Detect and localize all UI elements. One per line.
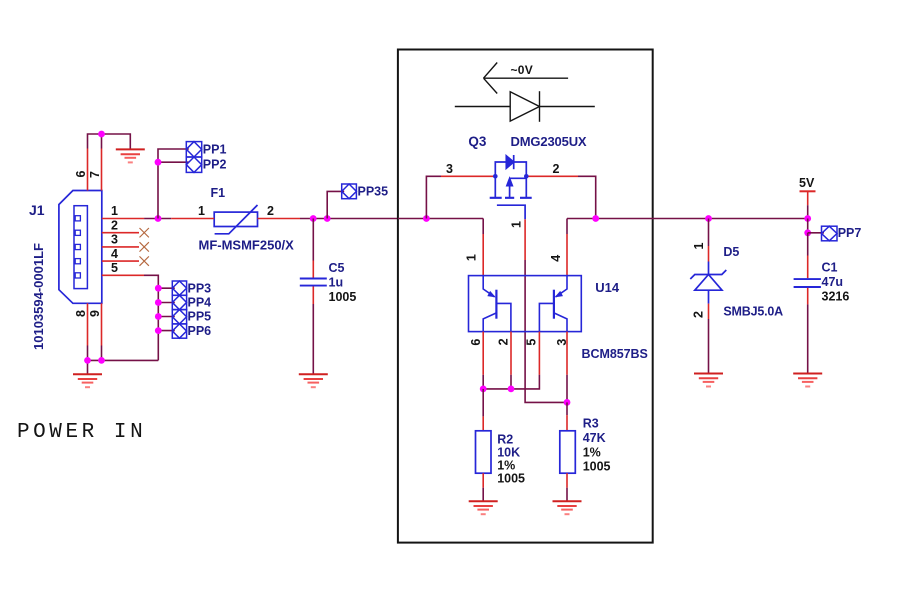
svg-text:2: 2	[267, 204, 274, 218]
svg-text:6: 6	[469, 339, 483, 346]
svg-text:D5: D5	[723, 245, 739, 259]
testpoint PP4	[172, 295, 186, 309]
D5 pin 2 lead	[708, 304, 710, 319]
wire PP35 riser	[327, 191, 344, 218]
svg-text:5: 5	[111, 261, 118, 275]
R2 bottom lead	[482, 473, 484, 488]
junction PP5	[155, 313, 162, 320]
svg-text:C1: C1	[822, 261, 838, 275]
wire pin7 top segment	[101, 134, 103, 149]
svg-text:PP1: PP1	[203, 143, 227, 157]
svg-text:1%: 1%	[497, 459, 515, 473]
wire PP1/PP2 riser	[158, 149, 189, 219]
R3 bottom lead	[566, 473, 568, 488]
wire pin2 to node	[510, 375, 512, 389]
wire C1 to ground	[807, 304, 809, 373]
svg-text:5V: 5V	[799, 176, 815, 190]
wire bottom bus to PP column	[88, 359, 159, 361]
svg-text:PP7: PP7	[838, 226, 862, 240]
ground (R3)	[553, 501, 582, 514]
svg-text:PP2: PP2	[203, 158, 227, 172]
svg-text:R3: R3	[583, 417, 599, 431]
wire pin9 bottom segment	[101, 346, 103, 361]
Q3 source node dot	[493, 174, 498, 179]
junction VBUS PP branch	[155, 215, 162, 222]
junction Q3 drain bus	[592, 215, 599, 222]
capacitor C5	[300, 279, 327, 286]
junction 5V	[804, 215, 811, 222]
junction pin8 node	[84, 357, 91, 364]
wire Q3 pin2 to right bus	[578, 176, 596, 218]
ground (J1 bottom)	[73, 374, 102, 387]
wire pin6 top segment	[88, 134, 102, 149]
svg-text:PP4: PP4	[188, 296, 212, 310]
svg-text:2: 2	[692, 311, 706, 318]
wire VBUS J1 to F1	[144, 218, 171, 220]
svg-text:1005: 1005	[497, 472, 525, 486]
no-connect X pin 2	[140, 228, 149, 237]
svg-text:Q3: Q3	[468, 134, 487, 149]
J1 pin 5 lead	[102, 274, 144, 276]
no-connect X pin 4	[140, 256, 149, 265]
svg-text:1: 1	[465, 254, 479, 261]
svg-text:5: 5	[524, 339, 538, 346]
R3 top lead	[566, 415, 568, 431]
U14 pin 5 lead	[538, 332, 540, 375]
J1 pin 7 lead	[101, 149, 103, 191]
wire R3 to ground	[566, 488, 568, 502]
J1 pin 1 lead	[102, 218, 144, 220]
junction PP35	[324, 215, 331, 222]
svg-text:10K: 10K	[497, 446, 520, 460]
junction PP3	[155, 285, 162, 292]
wire PP5 stub	[158, 316, 175, 318]
svg-text:9: 9	[88, 310, 102, 317]
junction base node left	[480, 386, 487, 393]
wire D5 top	[708, 219, 710, 247]
svg-text:3: 3	[555, 339, 569, 346]
wire pin8 bottom segment	[87, 346, 89, 361]
svg-text:J1: J1	[29, 202, 45, 218]
wire D5 to ground	[708, 319, 710, 374]
testpoint PP35	[342, 184, 357, 199]
Q3 pin 2 lead	[526, 175, 578, 177]
Q3 drain node dot	[524, 174, 529, 179]
testpoint PP5	[172, 310, 186, 324]
ground (D5)	[694, 374, 723, 387]
wire node to R2	[482, 389, 484, 417]
testpoint PP1	[186, 142, 201, 157]
J1 pin 9 lead	[101, 303, 103, 345]
dual transistor U14 (BCM857BS)	[469, 276, 582, 332]
5V power bar	[800, 190, 816, 192]
5V power lead	[807, 191, 809, 205]
svg-text:PP35: PP35	[358, 185, 389, 199]
junction top shield node	[98, 131, 105, 138]
svg-text:4: 4	[111, 247, 118, 261]
C1 top lead	[807, 256, 809, 279]
module box	[398, 50, 653, 543]
svg-text:2: 2	[553, 162, 560, 176]
svg-text:2: 2	[497, 338, 511, 345]
svg-text:47K: 47K	[583, 431, 606, 445]
svg-text:PP3: PP3	[188, 281, 212, 295]
svg-text:1: 1	[510, 221, 524, 228]
junction PP7	[804, 229, 811, 236]
svg-text:U14: U14	[595, 280, 620, 295]
transistor Q3 (P-MOSFET)	[490, 155, 532, 219]
svg-text:47u: 47u	[822, 275, 844, 289]
svg-text:PP6: PP6	[188, 324, 212, 338]
svg-text:1005: 1005	[583, 460, 611, 474]
svg-text:4: 4	[549, 255, 563, 262]
testpoint PP3	[172, 281, 186, 295]
U14 pin 3 lead	[566, 332, 568, 375]
testpoint PP7	[822, 226, 838, 241]
svg-text:~0V: ~0V	[511, 63, 534, 77]
junction PP6	[155, 327, 162, 334]
svg-text:1: 1	[111, 204, 118, 218]
J1 pin 8 lead	[87, 303, 89, 345]
ground (C5)	[299, 374, 328, 387]
svg-text:1: 1	[692, 242, 706, 249]
resistor R3	[560, 431, 576, 473]
svg-text:8: 8	[74, 310, 88, 317]
resistor R2	[476, 431, 492, 473]
wire PP3 stub	[158, 287, 175, 289]
svg-text:7: 7	[88, 171, 102, 178]
U14 right emitter arrow	[555, 291, 564, 298]
wire gate to R3 node	[525, 260, 567, 402]
U14 pin 2 lead	[510, 332, 512, 375]
Q3 pin 3 lead	[441, 175, 495, 177]
svg-text:3: 3	[446, 162, 453, 176]
connector J1	[59, 191, 102, 304]
U14 pin 6 lead	[482, 332, 484, 375]
U14 pin 4 lead	[566, 234, 568, 276]
wire PP7 node to C1	[807, 233, 809, 256]
wire 5V to bus	[807, 205, 809, 218]
U14 left emitter arrow	[487, 291, 496, 298]
wire ground stub bottom	[87, 360, 89, 374]
junction pin9 node	[98, 357, 105, 364]
zener diode D5	[690, 262, 726, 304]
C5 pin lead bottom	[312, 287, 314, 305]
svg-text:R2: R2	[497, 433, 513, 447]
wire right bus	[567, 218, 808, 220]
J1 pin 4 lead	[102, 260, 139, 262]
capacitor C1	[794, 279, 821, 287]
svg-text:1%: 1%	[583, 446, 601, 460]
wire pin3 to R3 node	[566, 375, 568, 403]
junction PP4	[155, 299, 162, 306]
J1 pin 2 lead	[102, 232, 139, 234]
svg-text:1005: 1005	[329, 290, 357, 304]
wire PP4 stub	[158, 302, 175, 304]
svg-text:2: 2	[111, 219, 118, 233]
C1 bottom lead	[807, 288, 809, 305]
wire PP2 stub	[158, 161, 189, 163]
junction pin2 node	[508, 386, 515, 393]
wire node to R3	[566, 402, 568, 415]
wire pin5 to PP ladder	[144, 275, 158, 360]
svg-text:DMG2305UX: DMG2305UX	[511, 134, 587, 149]
svg-text:3: 3	[111, 233, 118, 247]
F1 pin 1 lead	[171, 218, 214, 220]
svg-text:POWER IN: POWER IN	[17, 421, 146, 444]
U14 pin 1 lead	[482, 234, 484, 276]
svg-text:MF-MSMF250/X: MF-MSMF250/X	[199, 238, 295, 253]
diode symbol (body diode note)	[455, 91, 595, 122]
testpoint PP2	[186, 157, 201, 172]
svg-text:1: 1	[198, 204, 205, 218]
junction R3 node	[564, 399, 571, 406]
svg-text:BCM857BS: BCM857BS	[582, 347, 648, 361]
svg-text:1u: 1u	[329, 276, 344, 290]
wire pin5 to node	[483, 375, 539, 389]
svg-text:10103594-0001LF: 10103594-0001LF	[31, 243, 46, 350]
svg-text:C5: C5	[329, 261, 345, 275]
svg-text:SMBJ5.0A: SMBJ5.0A	[723, 305, 783, 319]
svg-text:3216: 3216	[822, 290, 850, 304]
wire Q3 pin3 riser	[426, 176, 441, 218]
wire F1 to C5 junction	[300, 218, 398, 220]
J1 pin 3 lead	[102, 246, 139, 248]
testpoint PP6	[172, 324, 186, 338]
wire to top ground	[102, 134, 131, 149]
junction D5 branch	[705, 215, 712, 222]
svg-text:F1: F1	[211, 186, 226, 200]
wire C5 to ground	[312, 304, 314, 374]
wire bus to PP7 node	[807, 219, 809, 233]
wire PP6 stub	[158, 330, 175, 332]
junction C5	[310, 215, 317, 222]
current direction arrow	[484, 63, 569, 94]
wire C5 junction to U14 pin1 corner	[398, 218, 483, 220]
D5 pin 1 lead	[708, 246, 710, 262]
svg-text:PP5: PP5	[188, 310, 212, 324]
C5 pin lead top	[312, 261, 314, 278]
junction Q3 source branch	[423, 215, 430, 222]
F1 pin 2 lead	[258, 218, 301, 220]
no-connect X pin 3	[140, 242, 149, 251]
ground (J1 shield top)	[116, 149, 145, 162]
svg-text:6: 6	[74, 170, 88, 177]
fuse F1	[214, 205, 257, 234]
wire pin6 to node	[482, 375, 484, 389]
R2 top lead	[482, 416, 484, 430]
wire right bus corner to U14 pin4	[566, 219, 568, 235]
J1 pin 6 lead	[87, 149, 89, 191]
wire R2 to ground	[482, 488, 484, 502]
ground (R2)	[469, 501, 498, 514]
wire U14 pin1 drop	[482, 219, 484, 235]
wire PP7 stub	[808, 232, 824, 234]
wire C5 top	[312, 219, 314, 261]
Q3 pin 1 (gate) lead	[524, 219, 526, 260]
junction PP2	[155, 159, 162, 166]
ground (C1)	[793, 374, 822, 387]
